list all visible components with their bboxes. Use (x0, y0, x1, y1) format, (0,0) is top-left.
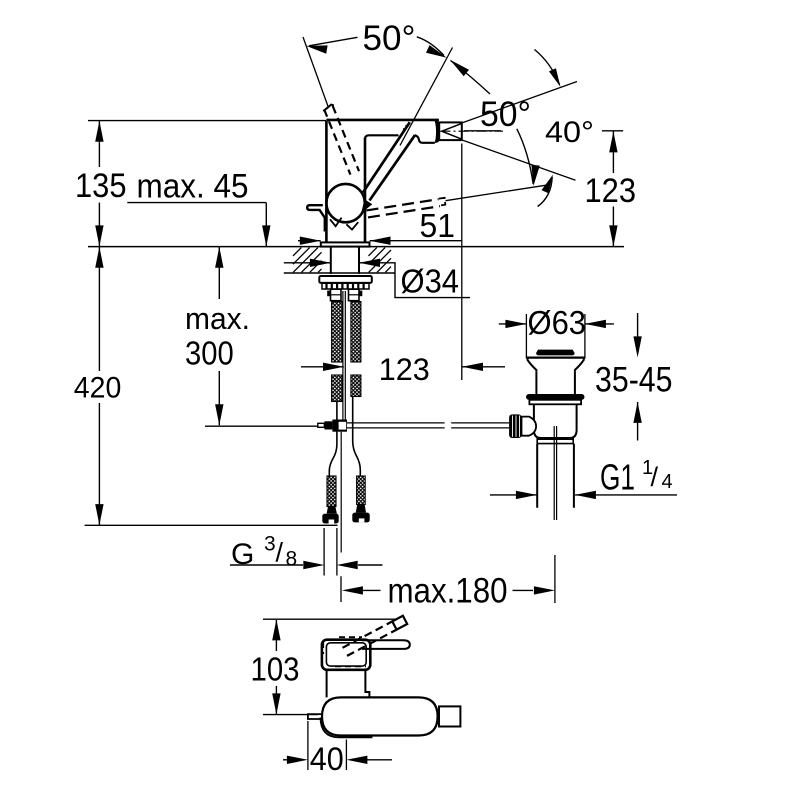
svg-text:4: 4 (662, 471, 673, 493)
waste body ring (537, 438, 573, 444)
hose tube right (353, 397, 361, 477)
angle 50 lower arc upper part (451, 61, 491, 95)
lever handle (solid) (363, 122, 415, 200)
svg-text:50°: 50° (363, 19, 416, 58)
dimension 40 lines (283, 759, 392, 761)
mounting shank (331, 247, 359, 274)
lever tip pointer (361, 199, 372, 213)
dimension 103 line (275, 620, 277, 714)
clamp knob (509, 414, 521, 438)
dimension 35-45 bottom arrow (633, 402, 641, 423)
waste valve body (534, 404, 577, 438)
angle 50 upper right arrow (426, 45, 447, 58)
O63 left arrow (505, 320, 526, 328)
dimension 51 right arrow (370, 237, 391, 245)
svg-text:135: 135 (75, 167, 127, 205)
dimension max 45 lines (127, 203, 266, 247)
svg-text:51: 51 (420, 208, 456, 245)
lowered lever extension line L4 (446, 185, 549, 201)
angle 50 upper right arc (417, 37, 444, 56)
dimension 123 right line (612, 131, 614, 246)
svg-text:103: 103 (251, 651, 300, 688)
angle 40 upper arc (535, 50, 560, 85)
hose braid mid right (351, 375, 361, 397)
spout underside left segment (365, 135, 399, 139)
spray cone lines (442, 123, 462, 139)
raised lever end cap (323, 105, 334, 112)
base plate (321, 242, 370, 246)
waste flange rim (526, 357, 585, 359)
svg-text:300: 300 (185, 334, 234, 371)
seal flange plate (529, 400, 581, 405)
O63 extension lines (526, 314, 585, 359)
raised lever position (dashed) (324, 106, 359, 175)
dimension O34 right arrow (359, 259, 380, 267)
G114 right arrow (575, 491, 596, 499)
top view handle body outer (322, 640, 370, 670)
hose braid upper right (351, 302, 361, 363)
G114 dimension lines (490, 494, 677, 496)
top view inlet pin (308, 714, 323, 719)
hose end fitting left (327, 507, 337, 514)
svg-text:/: / (651, 462, 659, 492)
castellated ring (322, 283, 369, 289)
hose connection reference line (205, 425, 318, 427)
O63 right arrow (585, 320, 606, 328)
rubber seal (526, 394, 585, 400)
mounting deck line (88, 246, 624, 248)
top view lever rod (362, 640, 410, 649)
max180 extension lines (341, 555, 555, 603)
svg-text:8: 8 (286, 548, 298, 571)
svg-text:/: / (276, 538, 284, 568)
angle 40 lower arc (538, 177, 553, 207)
click notch marks (330, 218, 358, 230)
pull rod (343, 291, 345, 421)
bottom view bottom reference line (263, 714, 318, 716)
hose end fitting right (356, 505, 366, 513)
waste flange funnel (528, 358, 584, 372)
svg-text:max.: max. (185, 301, 250, 336)
hose connector right (349, 289, 360, 301)
G38 extension lines (324, 528, 337, 576)
lever extension line L2 (400, 48, 453, 146)
ball joint (326, 184, 364, 222)
dimension 135 line (98, 121, 100, 246)
svg-text:35-45: 35-45 (595, 360, 673, 399)
top view raised lever (dashed) (343, 621, 397, 656)
svg-text:Ø63: Ø63 (528, 304, 587, 341)
lowered lever position (dashed) (367, 199, 441, 217)
hose braid upper left (332, 302, 343, 363)
bottom view top reference line (263, 618, 397, 620)
svg-text:40°: 40° (545, 116, 594, 149)
svg-text:50°: 50° (480, 95, 531, 134)
angle 50 lower bottom arrow (531, 165, 539, 186)
clamp body (522, 417, 537, 436)
lowered lever end cap (439, 198, 446, 206)
svg-text:G: G (231, 538, 254, 571)
dimension max 300 bottom arrow (215, 404, 223, 425)
top view handle body hidden edges (323, 637, 366, 666)
svg-text:123: 123 (585, 172, 637, 210)
svg-text:40: 40 (310, 741, 344, 777)
dimension 35-45 top arrow (633, 336, 641, 357)
spout underside right segment with step (415, 135, 435, 143)
angle 40 lower arrow (542, 175, 554, 194)
svg-text:Ø34: Ø34 (401, 263, 460, 300)
max180 dimension lines (362, 589, 533, 591)
waste tailpipe (537, 444, 574, 508)
dimension 123 right top arrow (609, 131, 617, 152)
dimension 40 left arrow (287, 756, 308, 764)
angle 50 lower upper arrow (450, 60, 469, 77)
mounting nut flange (319, 276, 372, 283)
top view outlet nub (439, 706, 460, 726)
dimension max 45 arrow (262, 225, 270, 246)
spout tilt-down line L5 (463, 140, 576, 180)
max180 left arrow (342, 586, 363, 594)
faucet top and spout top edge (326, 119, 439, 122)
angle 50 upper leader left (309, 37, 358, 46)
svg-text:max. 45: max. 45 (137, 168, 249, 206)
hose tube left (329, 402, 337, 477)
dimension 103 top arrow (272, 619, 280, 640)
O63 dimension lines (499, 323, 614, 325)
dimension max 300 line (218, 247, 220, 425)
dimension 135 bottom arrow (95, 225, 103, 246)
max180 right arrow (534, 586, 555, 594)
angle 40 reference tick (602, 130, 623, 132)
dimension 40 right arrow (346, 756, 367, 764)
angle 50 upper left arrow (306, 45, 327, 53)
G114 left arrow (516, 491, 537, 499)
spout axis extension (464, 130, 501, 132)
dimension 51 left arrow (300, 237, 321, 245)
hose braid lower left (327, 476, 336, 507)
dimension 420 top arrow (95, 247, 103, 268)
svg-text:420: 420 (74, 372, 122, 405)
dimension 420 bottom arrow (95, 504, 103, 525)
rod below T-joint (340, 432, 342, 553)
dimension 103 bottom arrow (272, 693, 280, 714)
spout tip extension line (461, 144, 463, 381)
waste plug cap (536, 350, 575, 356)
spout dash-dot axis (441, 130, 504, 132)
dimension 123 middle right arrow (462, 363, 483, 371)
top view raised lever cap (392, 616, 407, 630)
waste neck (536, 372, 575, 394)
hose braid mid left (332, 375, 343, 402)
top view nub connectors (437, 710, 439, 724)
spout tilt-up line S3 (463, 82, 577, 123)
spout tip box (439, 122, 462, 140)
G38 left arrow (303, 561, 324, 569)
dimension O34 left arrow (310, 259, 331, 267)
dimension 40 extension lines (308, 721, 347, 770)
dimension 420 line (98, 247, 100, 525)
top view base plate edge (321, 718, 372, 738)
dimension max 300 top arrow (215, 247, 223, 268)
svg-text:G1: G1 (600, 457, 635, 498)
lever pivot dashed mark (404, 125, 411, 132)
top view handle body inner (326, 643, 366, 666)
dimension 135 top arrow (95, 121, 103, 142)
dimension 123 right bottom arrow (609, 225, 617, 246)
hose connector left (331, 289, 342, 301)
G38 dimension lines (230, 564, 383, 566)
svg-text:3: 3 (264, 533, 276, 556)
hose braid lower right (357, 476, 366, 505)
dimension 123 middle lines (301, 366, 505, 368)
angle 40 upper arrow (549, 68, 561, 87)
dimension 51 line (298, 240, 462, 242)
raised lever extension line L1 (303, 37, 329, 108)
spout tip aerator face (black) (435, 121, 440, 143)
faucet body outline (326, 121, 365, 243)
horizontal pop-up rod (347, 423, 509, 428)
dimension O34 lines (284, 263, 470, 298)
deck hatching (293, 248, 391, 273)
top view body oval (322, 697, 438, 735)
top reference line (faucet top) (88, 120, 326, 122)
waste inner rod (554, 426, 556, 520)
svg-text:123: 123 (379, 351, 430, 387)
side hook lever (307, 205, 325, 231)
counter underside line (284, 272, 395, 274)
top view neck (327, 670, 370, 698)
hose end reference line (85, 524, 338, 526)
dimension 35-45 lines (637, 313, 639, 441)
svg-text:max.180: max.180 (388, 572, 508, 611)
G38 right arrow (337, 561, 358, 569)
pop-up rod T-joint (318, 423, 325, 427)
angle 50 lower arc lower part (517, 129, 533, 184)
dimension 123 middle left arrow (323, 363, 344, 371)
